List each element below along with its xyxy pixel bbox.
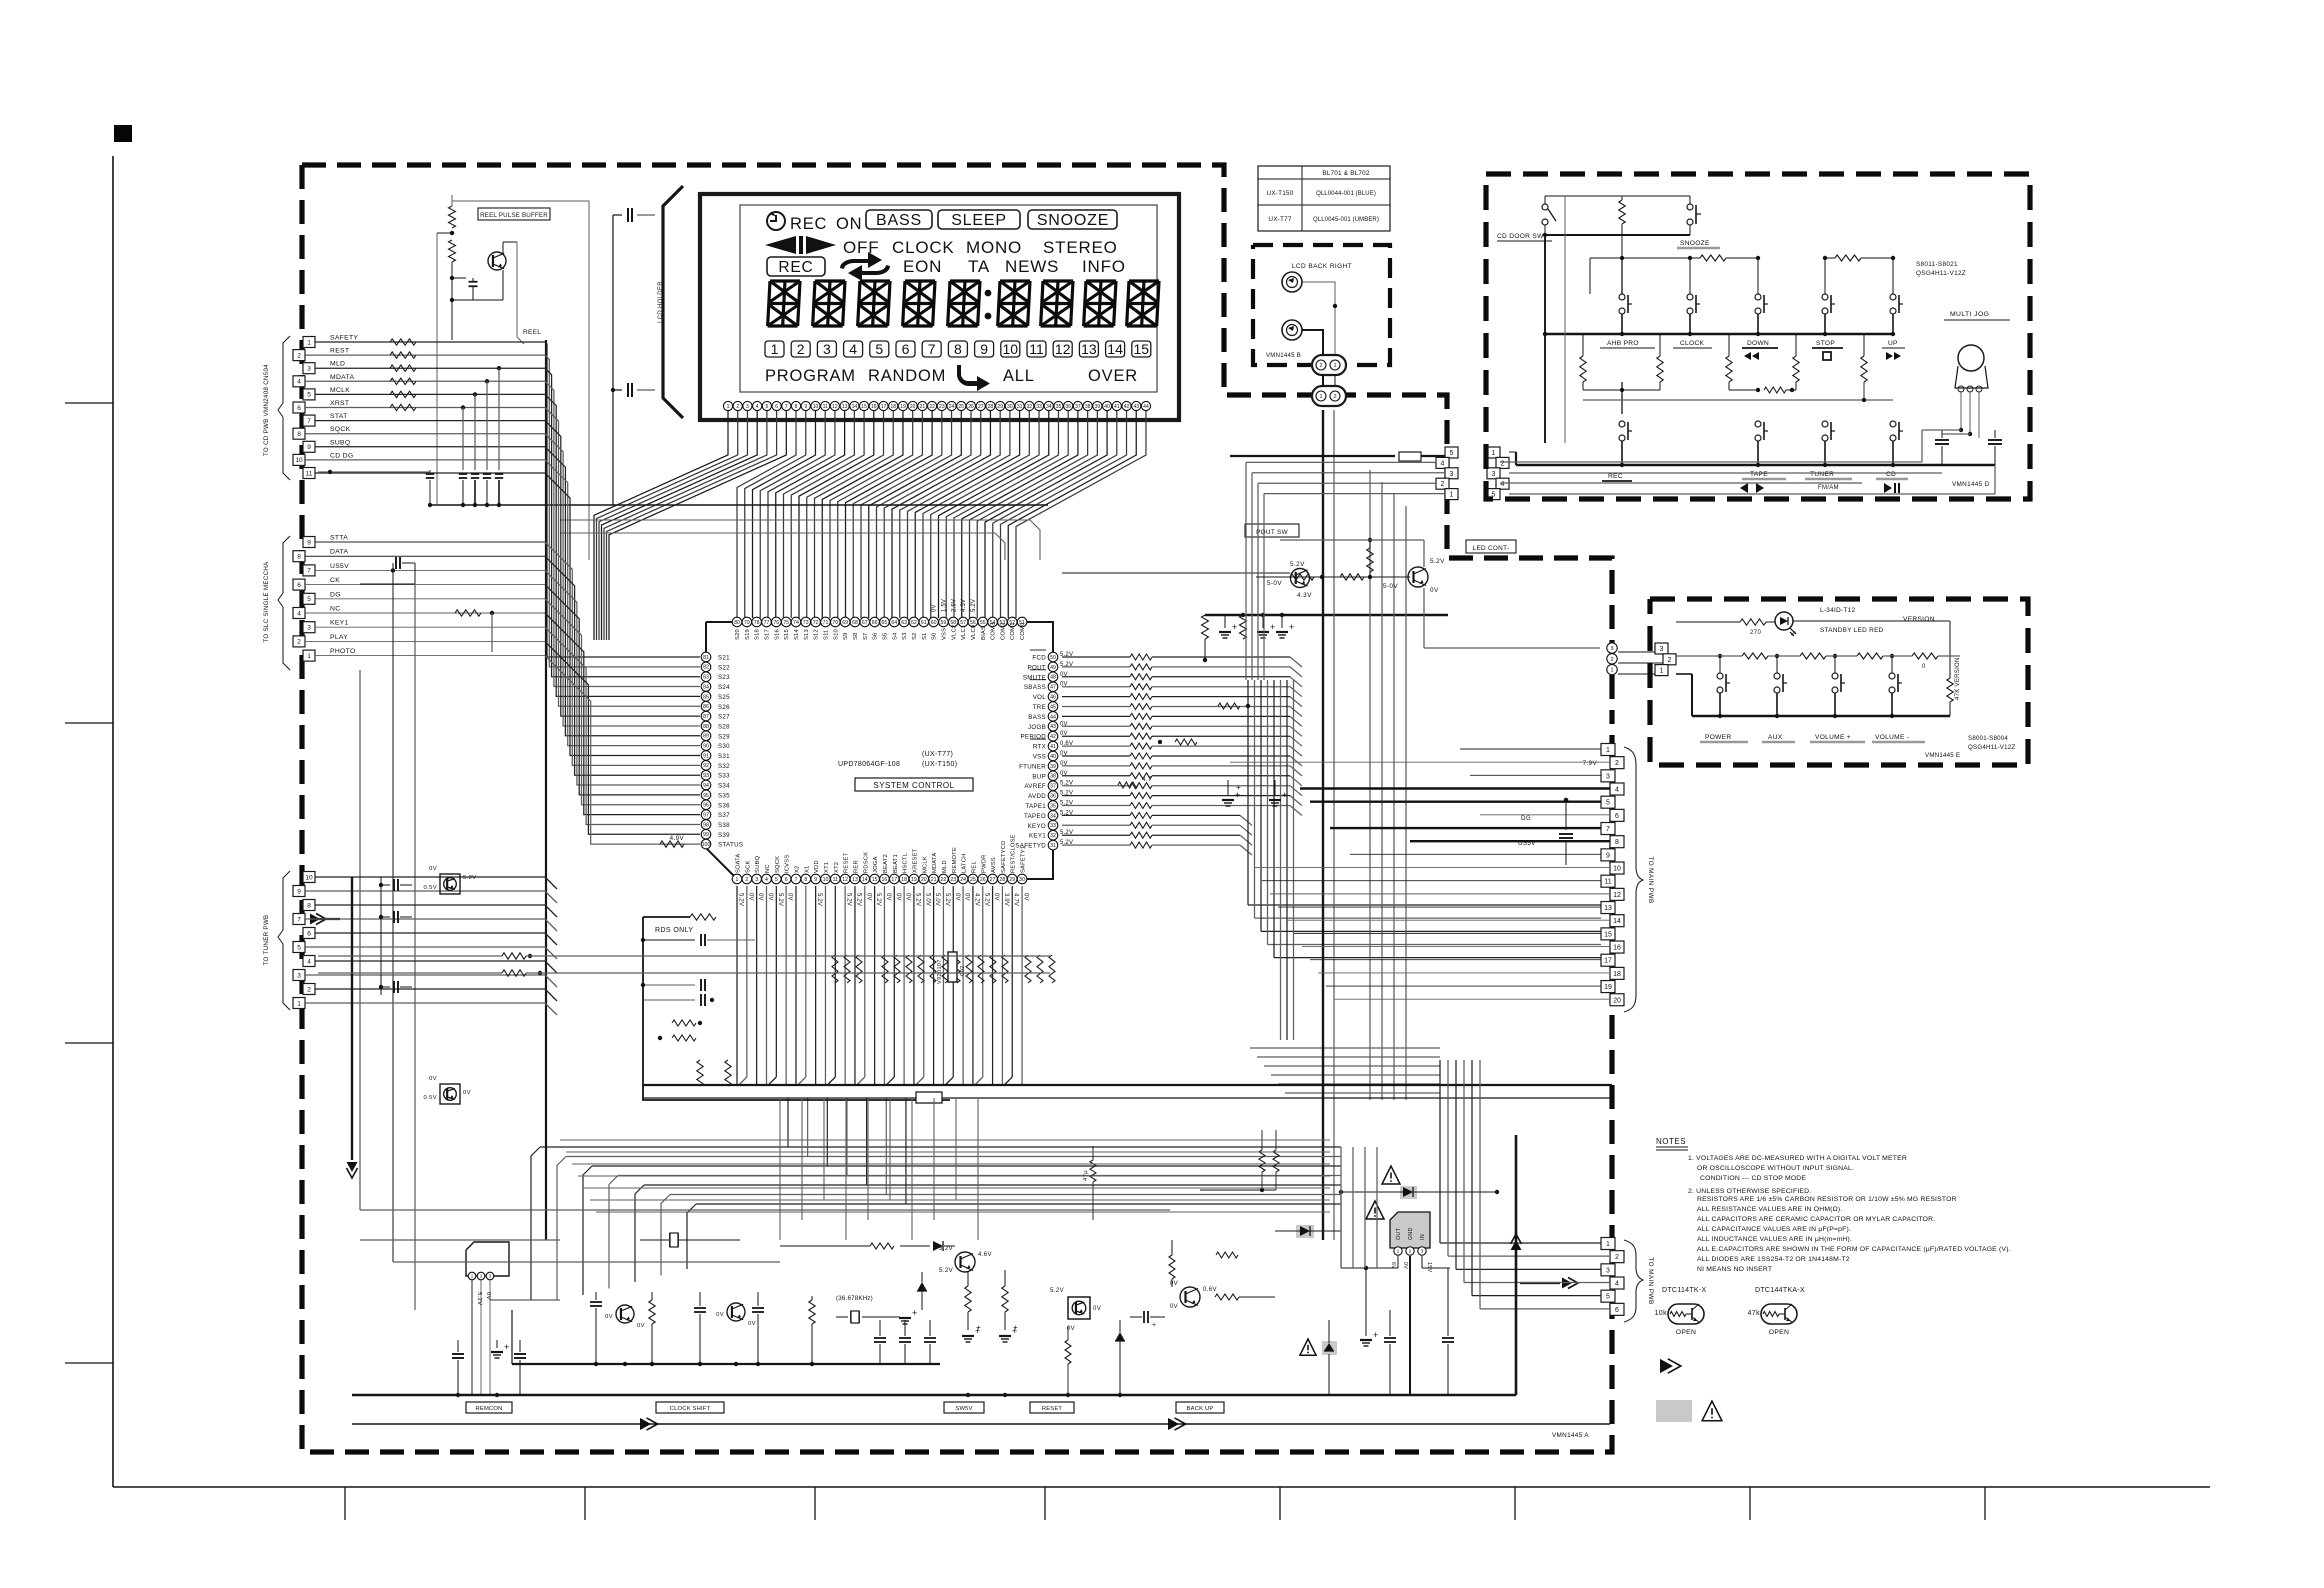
IC right pins 50-31 <box>1048 652 1058 662</box>
svg-text:33: 33 <box>1036 404 1042 410</box>
svg-text:OUT: OUT <box>1396 1227 1402 1240</box>
LCD pin row 1-44 <box>723 401 732 410</box>
fuse jumper to pin5 <box>1230 455 1395 457</box>
svg-text:+: + <box>1270 622 1276 632</box>
svg-text:15V: 15V <box>1426 1262 1432 1273</box>
svg-text:REEL: REEL <box>523 329 541 336</box>
svg-text:STAT: STAT <box>330 413 348 420</box>
svg-text:5: 5 <box>1450 450 1454 457</box>
svg-text:72: 72 <box>813 620 819 626</box>
LCD clock icon <box>767 212 785 230</box>
svg-text:TA: TA <box>968 257 990 276</box>
wires connector1 to bundle <box>315 341 545 343</box>
svg-text:5: 5 <box>307 392 311 399</box>
svg-text:6: 6 <box>297 582 301 589</box>
svg-text:14: 14 <box>862 877 868 883</box>
svg-text:35: 35 <box>1050 803 1056 809</box>
version box connector 3-2-1 <box>1655 643 1668 654</box>
svg-text:18: 18 <box>890 404 896 410</box>
brace TO MAIN PWB <box>1624 747 1643 1012</box>
LCD display inner frame <box>740 205 1157 392</box>
svg-text:4.6V: 4.6V <box>978 1252 992 1258</box>
diode D632 <box>1115 1332 1125 1341</box>
svg-text:GND: GND <box>1408 1227 1414 1240</box>
svg-text:FM/AM: FM/AM <box>1818 485 1839 491</box>
extra horizontals to main connector <box>1250 1047 1440 1049</box>
47u resistor右 <box>1090 1160 1096 1182</box>
svg-text:+: + <box>504 1342 510 1352</box>
svg-text:3: 3 <box>297 972 301 979</box>
RESET circuit <box>1068 1297 1090 1319</box>
CLOCK SHIFT label box <box>656 1402 724 1413</box>
row2 vertical resistors <box>1580 356 1586 382</box>
svg-text:POUT SW: POUT SW <box>1256 529 1288 536</box>
cd door sw wires <box>1544 196 1546 204</box>
svg-text:RDSCK: RDSCK <box>863 852 869 873</box>
lamp BL702 top <box>1282 272 1302 292</box>
svg-text:21: 21 <box>931 877 937 883</box>
connector TO TUNER PWB <box>303 872 315 883</box>
main ground bus <box>352 1394 1330 1396</box>
svg-text:REST: REST <box>330 348 349 355</box>
svg-text:7: 7 <box>795 877 798 883</box>
svg-text:20: 20 <box>921 877 927 883</box>
svg-text:77: 77 <box>764 620 770 626</box>
thick arrow into pin7 <box>310 914 320 925</box>
svg-text:AVDD: AVDD <box>1028 793 1046 800</box>
registration black square <box>114 125 132 142</box>
svg-text:TUNER: TUNER <box>1810 471 1834 478</box>
svg-text:SYSTEM CONTROL: SYSTEM CONTROL <box>873 781 954 790</box>
LCD segment box SNOOZE <box>1028 210 1117 229</box>
svg-text:0V: 0V <box>964 893 970 901</box>
svg-text:93: 93 <box>703 773 709 779</box>
svg-text:42: 42 <box>1124 404 1130 410</box>
svg-text:S20: S20 <box>735 629 741 640</box>
svg-text:28: 28 <box>988 404 994 410</box>
svg-text:POWER: POWER <box>1705 734 1731 741</box>
svg-text:3: 3 <box>1606 773 1610 780</box>
svg-text:11: 11 <box>306 470 313 477</box>
LCD segment box BASS <box>866 210 932 229</box>
version connector link wires <box>1618 651 1655 653</box>
svg-text:5.0V: 5.0V <box>934 893 940 906</box>
svg-text:+: + <box>1282 790 1288 800</box>
svg-text:4.2V: 4.2V <box>973 893 979 906</box>
svg-text:45: 45 <box>1050 704 1056 710</box>
svg-text:RTX: RTX <box>1033 744 1046 751</box>
svg-text:94: 94 <box>703 783 709 789</box>
svg-text:10: 10 <box>813 404 819 410</box>
svg-text:RESET: RESET <box>844 852 850 873</box>
legend arrow symbol <box>1660 1359 1673 1373</box>
svg-text:XRST: XRST <box>330 400 349 407</box>
svg-text:+: + <box>1232 622 1238 632</box>
svg-text:34: 34 <box>1046 404 1052 410</box>
IC top pins 80-51 <box>732 617 742 627</box>
svg-text:SBASS: SBASS <box>1024 684 1046 691</box>
svg-text:UX-T150: UX-T150 <box>1267 190 1294 197</box>
svg-text:34: 34 <box>1050 813 1056 819</box>
svg-text:JOGA: JOGA <box>873 856 879 873</box>
svg-text:RER: RER <box>853 860 859 873</box>
svg-text:4.3V: 4.3V <box>1297 592 1312 599</box>
svg-text:0V: 0V <box>605 1314 613 1320</box>
svg-text:+: + <box>912 1308 918 1318</box>
svg-text:0V: 0V <box>757 893 763 901</box>
svg-text:3: 3 <box>307 625 311 632</box>
resistor R710 <box>1202 615 1209 639</box>
LCD track number boxes 1-15 <box>765 341 784 357</box>
svg-text:COM1: COM1 <box>1010 622 1016 640</box>
svg-text:FCD: FCD <box>1032 655 1046 662</box>
svg-text:100: 100 <box>702 842 711 848</box>
svg-text:9: 9 <box>1606 852 1610 859</box>
svg-text:1: 1 <box>1660 668 1664 675</box>
page border frame <box>112 156 114 1487</box>
LCD arrows left right <box>765 236 796 254</box>
svg-text:QSG4H11-V12Z: QSG4H11-V12Z <box>1968 744 2015 751</box>
svg-text:74: 74 <box>793 620 799 626</box>
caps on tuner lines <box>380 877 382 995</box>
svg-text:+: + <box>1236 783 1241 792</box>
svg-text:NEWS: NEWS <box>1005 257 1059 276</box>
svg-text:RESET: RESET <box>1042 1406 1063 1412</box>
svg-text:REC: REC <box>1608 473 1623 480</box>
svg-text:5.0V: 5.0V <box>924 893 930 906</box>
cap C623 <box>643 999 695 1001</box>
svg-text:SW5V: SW5V <box>955 1406 972 1412</box>
svg-text:11: 11 <box>1029 341 1044 357</box>
svg-text:TO MAIN PWB: TO MAIN PWB <box>1647 856 1654 903</box>
svg-text:5.2V: 5.2V <box>738 893 744 906</box>
svg-text:4: 4 <box>1615 787 1619 794</box>
svg-text:AVREF: AVREF <box>1024 783 1046 790</box>
vertical gray lines from key connector <box>1369 470 1371 1100</box>
svg-text:S15: S15 <box>784 629 790 640</box>
osc bottom bus <box>512 1363 940 1365</box>
svg-text:15: 15 <box>1604 931 1612 938</box>
svg-text:9: 9 <box>307 539 311 546</box>
svg-text:9: 9 <box>980 341 988 357</box>
POUT SW label <box>1245 524 1299 537</box>
svg-text:S38: S38 <box>718 822 730 829</box>
transistor Q705 LED driver <box>1256 576 1410 578</box>
svg-text:BL701 & BL702: BL701 & BL702 <box>1322 170 1370 177</box>
thick bundle spine <box>545 340 547 1240</box>
junction dots near main connector <box>1564 798 1568 802</box>
svg-text:59: 59 <box>941 620 947 626</box>
svg-text:+: + <box>976 1323 981 1332</box>
svg-text:5.2V: 5.2V <box>846 893 852 906</box>
svg-text:S3: S3 <box>902 633 908 641</box>
svg-text:32: 32 <box>1050 833 1056 839</box>
svg-text:0V: 0V <box>485 1292 491 1300</box>
svg-text:24: 24 <box>949 404 955 410</box>
svg-text:5: 5 <box>765 404 768 410</box>
res v R625 <box>697 1060 703 1086</box>
svg-text:76: 76 <box>773 620 779 626</box>
BACK UP circuit <box>1180 1287 1200 1307</box>
wires tuner connector <box>315 876 545 878</box>
svg-text:16: 16 <box>1613 945 1621 952</box>
svg-text:TO TUNER PWB: TO TUNER PWB <box>263 915 270 966</box>
svg-text:COM0: COM0 <box>1020 622 1026 640</box>
LCD holder bracket <box>663 186 683 418</box>
wire staircase IC bottom to bottom circuits <box>540 1146 1341 1148</box>
svg-text:64: 64 <box>891 620 897 626</box>
svg-text:CLOCK: CLOCK <box>892 238 955 257</box>
R pullup Q705 <box>1367 548 1373 572</box>
svg-text:29: 29 <box>1009 877 1015 883</box>
capacitor C602 bottom <box>611 388 615 392</box>
svg-text:0V: 0V <box>748 1321 756 1327</box>
LCD display BL701 outer frame <box>700 194 1179 420</box>
svg-text:5.2V: 5.2V <box>939 1268 953 1274</box>
svg-text:9: 9 <box>814 877 817 883</box>
svg-text:1.5V: 1.5V <box>941 599 947 612</box>
svg-text:4.7: 4.7 <box>1142 776 1152 783</box>
version bottom bus <box>1692 715 1950 717</box>
svg-text:S32: S32 <box>718 763 730 770</box>
wire bus LCD to system control IC <box>594 411 728 640</box>
svg-text:S27: S27 <box>718 714 730 721</box>
svg-text:5.2V: 5.2V <box>1290 561 1305 568</box>
svg-text:VSS: VSS <box>1033 754 1046 761</box>
svg-text:SDATA: SDATA <box>736 854 742 873</box>
svg-text:40: 40 <box>1104 404 1110 410</box>
svg-text:+: + <box>1152 1322 1157 1329</box>
key switch matrix dashed box <box>1486 174 2030 499</box>
svg-text:+: + <box>1373 1330 1379 1340</box>
svg-text:0V: 0V <box>932 604 938 612</box>
svg-text:2: 2 <box>1668 657 1672 664</box>
cap C621 <box>643 939 695 941</box>
svg-text:NC: NC <box>765 864 771 873</box>
svg-text:16: 16 <box>882 877 888 883</box>
LED CONT label <box>1466 540 1516 553</box>
svg-text:SMUTE: SMUTE <box>1023 674 1046 681</box>
wire bus IC right to connectors <box>1062 656 1130 658</box>
svg-text:0V: 0V <box>429 866 437 872</box>
svg-text:19: 19 <box>911 877 917 883</box>
wires 6pin <box>1440 1242 1601 1244</box>
svg-text:LATCH: LATCH <box>962 853 968 873</box>
svg-text:5: 5 <box>297 944 301 951</box>
svg-text:S6: S6 <box>873 633 879 641</box>
LCD 14-segment digits <box>768 281 800 326</box>
model table BL701 & BL702 <box>1258 166 1390 231</box>
key row1 vertical feeds <box>1621 258 1623 294</box>
resistor + 4.9V on STATUS <box>660 841 684 847</box>
svg-text:11: 11 <box>833 877 838 883</box>
svg-text:4: 4 <box>307 958 311 965</box>
svg-text:82: 82 <box>703 665 709 671</box>
svg-text:4: 4 <box>756 404 759 410</box>
cap + at reset <box>1143 1311 1145 1323</box>
svg-text:5.2V: 5.2V <box>463 875 477 881</box>
brace TO CD PWB group <box>283 336 290 403</box>
standby LED L-34ID-T12 <box>1775 612 1793 630</box>
LCD segment box REC <box>767 257 825 276</box>
svg-text:5.2V: 5.2V <box>944 893 950 906</box>
svg-text:15: 15 <box>872 877 878 883</box>
svg-text:S39: S39 <box>718 832 730 839</box>
down arrow thick line <box>351 877 353 1160</box>
svg-text:13: 13 <box>842 404 848 410</box>
diode D701 gray <box>1400 1186 1417 1199</box>
svg-text:BASS: BASS <box>876 212 922 229</box>
vertical bundle right of IC <box>1247 680 1249 905</box>
svg-text:22: 22 <box>941 877 947 883</box>
svg-text:OVER: OVER <box>1088 367 1138 385</box>
svg-text:SAFETY1: SAFETY1 <box>1021 846 1027 873</box>
ecap C710 <box>1224 615 1226 628</box>
svg-text:S8: S8 <box>853 633 859 641</box>
svg-text:4.5V: 4.5V <box>961 599 967 612</box>
svg-text:PWDR: PWDR <box>981 854 987 873</box>
resistor R714 on 44 <box>1175 739 1197 745</box>
led wire + resistor 270 <box>1676 621 1740 623</box>
svg-text:83: 83 <box>703 675 709 681</box>
svg-text:5-0V: 5-0V <box>1383 583 1398 590</box>
svg-text:43: 43 <box>1050 724 1056 730</box>
svg-text:DG: DG <box>330 591 341 598</box>
svg-text:0V: 0V <box>1402 1262 1408 1269</box>
svg-text:S2: S2 <box>912 633 918 641</box>
svg-text:96: 96 <box>703 803 709 809</box>
connector TO MAIN PWB 20pin <box>1601 744 1615 756</box>
svg-text:EON: EON <box>903 257 942 276</box>
resistor R711 <box>1240 615 1247 639</box>
svg-text:COM3: COM3 <box>991 622 997 640</box>
svg-text:S31: S31 <box>718 753 730 760</box>
svg-text:LCD HOLDER: LCD HOLDER <box>658 281 664 323</box>
svg-text:8: 8 <box>804 877 807 883</box>
svg-text:24: 24 <box>960 877 966 883</box>
svg-text:36: 36 <box>1065 404 1071 410</box>
resistor between STOP UP <box>1835 255 1861 261</box>
svg-text:TO CD PWB VMN2408 CN504: TO CD PWB VMN2408 CN504 <box>263 364 270 456</box>
LCD all-repeat arrow icon <box>957 365 990 391</box>
svg-text:1: 1 <box>1450 492 1454 499</box>
svg-text:0V: 0V <box>865 893 871 901</box>
svg-text:FTUNER: FTUNER <box>1019 763 1046 770</box>
resistor between CLOCK DOWN <box>1700 255 1726 261</box>
svg-text:5.2V: 5.2V <box>1430 558 1445 565</box>
ground bus extension right <box>1330 1394 1516 1396</box>
svg-text:REMCON: REMCON <box>476 1406 503 1412</box>
svg-text:16: 16 <box>871 404 877 410</box>
REMCON receiver <box>466 1242 509 1276</box>
svg-text:60: 60 <box>931 620 937 626</box>
svg-text:5.2V: 5.2V <box>1050 1288 1064 1294</box>
reel buffer circuit wires <box>452 201 589 560</box>
svg-text:1: 1 <box>1610 668 1613 674</box>
version resistor row <box>1676 655 1712 657</box>
svg-text:5.2V: 5.2V <box>777 893 783 906</box>
svg-text:STATUS: STATUS <box>718 842 743 849</box>
warning triangle 2 <box>1366 1201 1384 1219</box>
svg-text:50: 50 <box>1050 655 1056 661</box>
svg-text:TO SLC SINGLE MECCHA: TO SLC SINGLE MECCHA <box>263 561 270 643</box>
svg-text:STANDBY LED RED: STANDBY LED RED <box>1820 627 1884 634</box>
REEL PULSE BUFFER label <box>478 208 550 220</box>
svg-text:1: 1 <box>1319 394 1322 400</box>
CD DOOR SW switch S8022 <box>1542 204 1548 210</box>
wire bundle vertical mid-left and fan into IC left pins <box>545 342 700 657</box>
long wires from connector boxes <box>1509 451 1516 453</box>
svg-text:2: 2 <box>1319 363 1322 369</box>
svg-text:0V: 0V <box>747 893 753 901</box>
ecap C716 <box>1274 780 1276 795</box>
svg-text:UPD78064GF-108: UPD78064GF-108 <box>838 761 900 768</box>
svg-text:S0: S0 <box>932 633 938 641</box>
LCD colon dots <box>985 290 992 297</box>
svg-text:AUX: AUX <box>1768 734 1783 741</box>
svg-text:S18: S18 <box>755 629 761 640</box>
svg-text:23: 23 <box>939 404 945 410</box>
connector to key PWB left half <box>1445 447 1458 458</box>
svg-text:17: 17 <box>891 877 897 883</box>
svg-text:87: 87 <box>703 714 709 720</box>
svg-text:44: 44 <box>1143 404 1149 410</box>
svg-text:4: 4 <box>1501 481 1505 488</box>
resistor R702 <box>449 240 456 262</box>
SNOOZE switch S8021 <box>1687 204 1693 210</box>
svg-text:8: 8 <box>297 431 301 438</box>
res R630 R631 <box>965 1286 971 1312</box>
svg-text:44: 44 <box>1050 714 1056 720</box>
svg-text:75: 75 <box>783 620 789 626</box>
svg-text:31: 31 <box>1017 404 1023 410</box>
svg-text:21: 21 <box>920 404 926 410</box>
svg-text:+: + <box>1013 1323 1018 1332</box>
svg-text:S17: S17 <box>764 629 770 640</box>
transistor block Q610 <box>440 874 460 894</box>
svg-text:10: 10 <box>1003 341 1019 357</box>
matrix internal column wires <box>1564 196 1566 443</box>
switches row2 REC TAPE TUNER CD <box>1619 421 1625 427</box>
svg-text:20: 20 <box>910 404 916 410</box>
svg-text:38: 38 <box>1085 404 1091 410</box>
svg-text:0V: 0V <box>895 893 901 901</box>
svg-text:US5V: US5V <box>330 563 349 570</box>
svg-text:BASS: BASS <box>1028 714 1046 721</box>
svg-text:97: 97 <box>703 812 709 818</box>
svg-text:S8011-S8021: S8011-S8021 <box>1916 261 1958 268</box>
svg-text:QLL0044-001 (BLUE): QLL0044-001 (BLUE) <box>1316 191 1376 197</box>
svg-text:ICVSS: ICVSS <box>785 855 791 873</box>
thick bus y1085 <box>643 1084 1612 1086</box>
svg-text:1: 1 <box>307 653 311 660</box>
svg-text:2: 2 <box>745 877 748 883</box>
svg-text:S8001-S8004: S8001-S8004 <box>1968 735 2008 742</box>
svg-text:5: 5 <box>1606 1294 1610 1301</box>
svg-text:35: 35 <box>1056 404 1062 410</box>
res R623 <box>672 1020 696 1026</box>
svg-text:VMN1445 A: VMN1445 A <box>1552 1432 1589 1439</box>
svg-text:ALL CAPACITORS ARE CERAMIC CAP: ALL CAPACITORS ARE CERAMIC CAPACITOR OR … <box>1697 1216 1935 1223</box>
svg-text:6: 6 <box>902 341 910 357</box>
svg-text:0V: 0V <box>1170 1281 1178 1287</box>
warning triangle 1 <box>1382 1166 1400 1184</box>
brace TO TUNER group <box>283 871 290 930</box>
svg-text:SUBQ: SUBQ <box>755 855 761 873</box>
svg-text:S30: S30 <box>718 743 730 750</box>
connector TO SLC SINGLE MECCHA <box>303 537 315 548</box>
svg-text:0V: 0V <box>993 893 999 901</box>
